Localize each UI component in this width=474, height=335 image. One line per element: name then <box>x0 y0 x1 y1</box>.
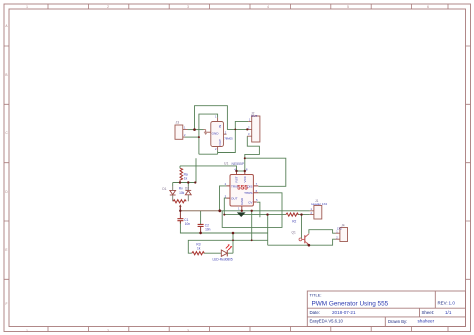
wire CV descender <box>257 202 260 217</box>
svg-text:EasyEDA V5.6.10: EasyEDA V5.6.10 <box>310 319 344 324</box>
wire TRIG descender <box>220 186 227 211</box>
junction LED box top <box>232 239 234 241</box>
555 timer U1 <box>224 161 258 210</box>
diode D2 <box>185 186 191 200</box>
svg-text:Q1: Q1 <box>292 231 296 235</box>
wire CV-C2? drop <box>267 215 269 246</box>
svg-text:GND: GND <box>240 197 244 205</box>
junction J3.1/GND loop <box>193 128 196 131</box>
wire U2 bottom row <box>199 150 218 154</box>
svg-text:R2: R2 <box>292 219 296 223</box>
svg-text:U1: U1 <box>224 161 228 165</box>
junction Q1 emitter <box>308 244 311 247</box>
junction TRIG rail1 <box>218 209 221 212</box>
svg-text:10n: 10n <box>205 228 211 232</box>
svg-text:GND: GND <box>212 132 220 136</box>
junction 555 VCC pin <box>244 170 246 172</box>
connector J2 <box>247 112 260 143</box>
svg-text:1k: 1k <box>184 176 188 180</box>
wire rail1 green part <box>220 210 310 212</box>
wire rail2 OUT net <box>224 214 309 216</box>
junction D2 node <box>187 181 189 183</box>
title block <box>307 291 465 327</box>
svg-text:THRS: THRS <box>244 191 252 195</box>
wire emitter rail to J4 <box>268 239 336 245</box>
connector J4 <box>336 223 348 241</box>
svg-text:VCC: VCC <box>243 175 247 182</box>
LED1 <box>213 243 233 261</box>
wire VCC-RST rail from Ra top <box>180 166 237 171</box>
voltage regulator U2 78M05 <box>211 115 233 151</box>
svg-text:D1: D1 <box>162 187 166 191</box>
wire C2 top lead <box>200 211 202 224</box>
svg-text:1/1: 1/1 <box>445 310 452 315</box>
svg-text:1: 1 <box>26 5 28 9</box>
wire THRS run <box>222 193 282 228</box>
svg-text:REV:: REV: <box>438 301 448 306</box>
svg-text:Drawn By:: Drawn By: <box>388 319 407 324</box>
junction Q1 base rail2 <box>300 213 302 215</box>
junction OUT rail2 <box>223 214 225 216</box>
svg-text:78M05: 78M05 <box>224 137 233 141</box>
junction 555 RST pin <box>235 170 237 172</box>
wire J3 pin1 to U2 gnd flag <box>188 129 204 131</box>
wire collector loop to J4 <box>309 230 336 234</box>
junction J2 pin2 <box>246 128 248 130</box>
svg-text:5: 5 <box>347 5 349 9</box>
resistor Ra <box>180 168 188 181</box>
svg-text:F: F <box>6 302 8 306</box>
svg-text:TITLE:: TITLE: <box>310 293 322 298</box>
junction VCC rail <box>244 157 246 159</box>
svg-text:RST: RST <box>235 176 239 182</box>
svg-text:OUT: OUT <box>231 197 238 201</box>
svg-text:OUT: OUT <box>251 114 258 118</box>
svg-text:D2: D2 <box>185 187 189 191</box>
wire bottom gnd rail <box>180 221 267 233</box>
title block text <box>310 293 456 324</box>
svg-text:DIS: DIS <box>247 184 252 188</box>
svg-text:Date:: Date: <box>310 310 321 315</box>
junction rail1 drop bottom <box>251 239 253 241</box>
junction Ra bottom node <box>179 181 181 183</box>
svg-text:J3: J3 <box>176 121 180 125</box>
svg-text:2018-07-21: 2018-07-21 <box>332 310 356 315</box>
junction node riser <box>194 181 196 183</box>
wire J2 pin3 staircase to VCC <box>245 136 260 171</box>
potentiometer RV 10k <box>173 187 189 211</box>
ground net flag at 555 GND <box>237 212 246 217</box>
svg-text:E: E <box>5 248 7 252</box>
svg-text:IN: IN <box>218 125 222 128</box>
capacitor C1 <box>177 207 190 226</box>
wire J2 pin1 branch <box>218 121 249 152</box>
wire OUT descender <box>224 198 226 215</box>
svg-text:TRIG: TRIG <box>231 184 239 188</box>
wire DIS top rail <box>245 158 286 186</box>
diode D1 <box>162 186 175 200</box>
wire rail1 to emitter drop <box>251 211 253 241</box>
junction pot wiper / C1 <box>179 210 181 212</box>
junction rail2 drop <box>266 213 268 215</box>
svg-text:1: 1 <box>26 329 28 333</box>
svg-text:Sheet:: Sheet: <box>422 310 435 315</box>
wire gnd outer loop (J3.1 up over to J2.2) <box>195 106 248 130</box>
wire Q1 base riser <box>301 215 303 239</box>
svg-text:Rv: Rv <box>179 187 183 191</box>
svg-text:OUT: OUT <box>218 139 222 146</box>
wire node riser <box>195 158 197 182</box>
svg-text:4: 4 <box>267 5 269 9</box>
wire J3 pin2 run <box>185 136 199 138</box>
wire RST-VCC pin link <box>237 170 245 172</box>
node wire (Ra bottom / diodes) <box>173 181 196 186</box>
svg-text:10k: 10k <box>179 191 185 195</box>
svg-text:LED-Red0805: LED-Red0805 <box>213 258 233 262</box>
connector J3 <box>175 121 188 140</box>
svg-text:6: 6 <box>427 5 429 9</box>
ground flag at U2 GND pin <box>204 130 211 135</box>
svg-text:B: B <box>5 73 7 77</box>
junction J2 pin1 branch <box>234 129 236 131</box>
junction rail1 drop <box>251 210 253 212</box>
svg-text:3: 3 <box>187 329 189 333</box>
svg-text:1.0: 1.0 <box>449 301 456 306</box>
svg-text:NE555P: NE555P <box>232 162 245 166</box>
svg-text:2: 2 <box>107 329 109 333</box>
wire rail1 brown segment (pot wiper to TRIG) <box>180 210 219 212</box>
svg-text:10n: 10n <box>185 222 191 226</box>
svg-text:1k: 1k <box>197 246 201 250</box>
transistor Q1 <box>292 231 309 245</box>
wire U2 top pin loop <box>199 114 218 154</box>
svg-text:2: 2 <box>107 5 109 9</box>
svg-text:shaheer: shaheer <box>418 319 435 324</box>
junction C2 gnd rail <box>199 232 202 235</box>
svg-text:3: 3 <box>187 5 189 9</box>
wire LED branch box <box>188 233 267 253</box>
junction J3.2 riser <box>198 136 200 138</box>
svg-text:Header 1X2: Header 1X2 <box>311 202 327 206</box>
svg-text:PWM Generator Using 555: PWM Generator Using 555 <box>312 300 389 307</box>
junction 555 GND pin <box>241 210 243 212</box>
resistor R2 <box>286 213 299 223</box>
connector J1 <box>310 199 328 219</box>
junction LED branch <box>232 232 235 235</box>
resistor R3 <box>192 243 204 255</box>
capacitor C2 <box>198 224 211 233</box>
